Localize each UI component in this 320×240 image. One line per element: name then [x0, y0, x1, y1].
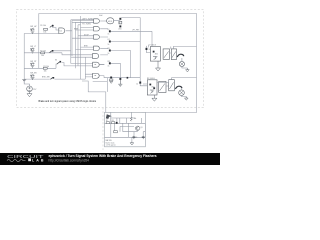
- footer bar: [0, 153, 220, 165]
- wire lamp to rail: [170, 53, 188, 68]
- svg-text:STOP: STOP: [84, 34, 90, 36]
- ground driver 1 b: [186, 68, 190, 72]
- svg-text:R1 10k: R1 10k: [40, 25, 46, 27]
- resistor R1: [40, 25, 47, 33]
- wire mid vertical bus A: [71, 20, 81, 64]
- wire input row 1: [24, 25, 59, 34]
- svg-text:1k: 1k: [108, 44, 110, 46]
- op-amp gate U1 (AND, left): [59, 28, 65, 34]
- resistor R7: [106, 122, 109, 124]
- driver 1 contact box A: [163, 49, 169, 59]
- svg-text:1k: 1k: [108, 53, 110, 55]
- wire driver2 feed: [104, 78, 140, 82]
- svg-text:SW_LT: SW_LT: [30, 46, 37, 48]
- AND gate U2: [94, 19, 100, 23]
- switch S1 lever: [50, 26, 52, 28]
- lamp L1: [179, 61, 184, 66]
- CircuitLab logo LAB: [28, 158, 31, 161]
- flasher clock label box: [109, 113, 115, 116]
- wire driver2 top rail: [172, 77, 197, 79]
- svg-text:RT_TURN: RT_TURN: [82, 23, 91, 25]
- svg-text:SW_BR: SW_BR: [30, 73, 37, 75]
- wire mid vertical bus B: [66, 21, 94, 57]
- wire driver1 up to rail: [171, 47, 174, 49]
- svg-text:1.5 Hz approx: 1.5 Hz approx: [106, 145, 116, 147]
- wire gate7 output: [99, 76, 107, 92]
- wire osc vertical b: [116, 118, 118, 123]
- switch S2 lever: [50, 51, 52, 53]
- AND gate U4: [94, 35, 100, 39]
- svg-text:LEFT_TURN: LEFT_TURN: [82, 19, 93, 21]
- svg-text:C1: C1: [135, 137, 137, 139]
- svg-text:http://circuitlab.com/c/tyn354: http://circuitlab.com/c/tyn354: [49, 158, 90, 162]
- LED D7c small: [127, 77, 129, 79]
- svg-text:10k: 10k: [44, 70, 47, 72]
- wire Vdd top bus: [39, 14, 197, 113]
- LED D7 (bottom left feed): [119, 78, 121, 80]
- wire osc top rail: [111, 112, 135, 118]
- wires driver 2: [157, 78, 186, 97]
- driver 2 relay box K2: [147, 80, 157, 95]
- wire osc mid rail: [105, 122, 146, 124]
- wire gate5 inputs: [71, 56, 93, 58]
- page margin dashed border (page 2 left edge): [102, 108, 104, 151]
- svg-text:R8: R8: [112, 120, 114, 122]
- wire gate6 inputs: [71, 63, 93, 65]
- svg-text:S3: S3: [55, 59, 57, 61]
- input switch SW3 (right turn): [30, 61, 37, 68]
- wire V1 top: [24, 80, 29, 87]
- ground V1: [27, 92, 32, 97]
- svg-text:1k: 1k: [136, 84, 138, 86]
- LED D7a stack: [110, 77, 112, 79]
- svg-text:10k: 10k: [41, 55, 44, 57]
- wire LED branch 3: [100, 48, 130, 77]
- svg-text:BRK_SW: BRK_SW: [42, 77, 50, 79]
- AND gate U3: [94, 27, 100, 31]
- wire gate7 inputs: [82, 81, 107, 112]
- LED D10: [116, 122, 118, 124]
- wire gate1 output to oscillator ellipse: [100, 20, 106, 22]
- wire input row 4: [24, 57, 93, 79]
- wire osc vertical a: [110, 118, 112, 137]
- ground driver 1 a: [156, 61, 161, 71]
- lamp L2: [179, 90, 185, 96]
- CircuitLab logo wave: [7, 160, 26, 162]
- svg-text:10k: 10k: [134, 118, 137, 120]
- input switch SW4 (brake): [30, 73, 37, 80]
- resistor R9 (zigzag): [130, 117, 132, 121]
- svg-text:1k: 1k: [108, 34, 110, 36]
- driver 1 wire to relay: [146, 46, 150, 53]
- svg-text:U1: U1: [60, 31, 62, 33]
- battery V1: [27, 86, 33, 92]
- wire input row 2: [24, 51, 92, 55]
- wire osc bottom rail: [105, 123, 146, 137]
- resistor R3: [43, 66, 49, 73]
- oscillator ellipse U9: [107, 18, 114, 24]
- svg-text:flasher clock: flasher clock: [106, 142, 115, 144]
- wire LED branch 2: [100, 37, 140, 78]
- OR gate U8: [93, 73, 100, 78]
- svg-text:Q3: Q3: [140, 127, 142, 129]
- wire gate1 inputs: [72, 20, 94, 23]
- svg-text:R7: R7: [106, 120, 108, 122]
- svg-text:10k: 10k: [43, 31, 46, 33]
- svg-text:Vdd: Vdd: [99, 15, 102, 17]
- ground driver 2 a: [152, 95, 157, 101]
- svg-text:4N2: 4N2: [155, 53, 158, 55]
- wire mid vertical bus E: [80, 16, 82, 79]
- resistor R8: [112, 122, 115, 124]
- wire gate3 inputs: [72, 36, 94, 38]
- transistor Q3: [135, 126, 139, 130]
- transistor Q2: [175, 86, 182, 89]
- wire mid vertical bus D: [78, 25, 81, 66]
- wire driver1 top rail: [173, 46, 197, 48]
- svg-text:1k: 1k: [108, 66, 110, 68]
- wire LED branch 4: [100, 55, 120, 78]
- wire input row 3: [24, 63, 93, 69]
- svg-text:NE 555: NE 555: [106, 140, 112, 142]
- wire LED branch 1: [100, 29, 152, 52]
- OR gate U6: [93, 54, 99, 59]
- wire gate6 output: [99, 64, 104, 66]
- wire gate2 inputs: [76, 28, 94, 30]
- svg-text:SW_RT: SW_RT: [30, 61, 37, 63]
- AND gate U5: [94, 46, 100, 50]
- flasher sub-circuit box: [105, 112, 146, 146]
- wire gate4 inputs: [76, 47, 94, 49]
- wire ellipse output to LED column: [114, 18, 140, 42]
- LED D1: [119, 18, 121, 20]
- svg-text:LF_BULB: LF_BULB: [149, 44, 157, 46]
- corner flag: [106, 114, 112, 119]
- input switch SW1 (hazard): [30, 26, 37, 33]
- wire mid vertical bus C: [76, 22, 94, 68]
- ground for D7: [118, 80, 122, 87]
- svg-text:1k: 1k: [119, 22, 121, 24]
- driver 1 relay box K1: [150, 47, 160, 62]
- svg-text:EMR: EMR: [74, 29, 79, 31]
- driver 2 LED D9: [139, 82, 141, 84]
- ground main left bus: [22, 80, 26, 82]
- driver 2 wire to relay: [140, 84, 147, 86]
- transistor Q1: [177, 54, 184, 57]
- small box component: [114, 131, 118, 133]
- switch S3 lever: [57, 62, 60, 64]
- ground osc: [130, 141, 134, 145]
- driver 1 LED D8: [146, 48, 148, 50]
- driver 2 contact box B: [169, 80, 175, 91]
- resistor R4: [119, 21, 122, 24]
- svg-text:SW_HZ: SW_HZ: [30, 26, 37, 28]
- wire osc inner: [114, 118, 145, 137]
- svg-text:LAB: LAB: [32, 158, 44, 162]
- LED D2: [119, 25, 121, 27]
- driver 2 contact box A: [159, 82, 166, 93]
- driver 1 contact box B: [171, 49, 176, 60]
- capacitor C2: [142, 136, 145, 139]
- page margin dashed border (page 1): [17, 10, 204, 108]
- resistor R2: [40, 50, 46, 57]
- input switch SW2 (left turn): [30, 46, 37, 53]
- svg-text:Brake and turn signal system u: Brake and turn signal system using CMOS …: [39, 99, 97, 103]
- OR gate U7: [93, 62, 99, 67]
- ground driver 2 b: [185, 97, 189, 101]
- svg-text:MOD: MOD: [108, 21, 113, 23]
- svg-text:LFT_FRT: LFT_FRT: [132, 30, 139, 32]
- wire left ground bus: [23, 34, 25, 80]
- capacitor C1: [133, 136, 136, 139]
